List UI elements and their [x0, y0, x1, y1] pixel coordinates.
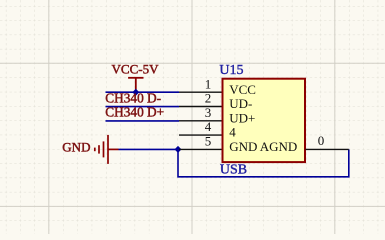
svg-text:U15: U15 — [219, 63, 243, 78]
power port VCC-5V bar symbol — [128, 78, 143, 92]
wire net GND to pin 5 — [119, 148, 180, 150]
svg-text:GND: GND — [62, 140, 90, 155]
svg-text:CH340 D-: CH340 D- — [105, 90, 161, 105]
wire USB loop from GND junction to pin 0 — [178, 149, 349, 176]
svg-text:VCC-5V: VCC-5V — [112, 61, 160, 76]
pin 0 line — [306, 148, 349, 150]
svg-text:UD-: UD- — [229, 96, 252, 111]
svg-text:GND: GND — [229, 139, 257, 154]
pin 4 line — [179, 134, 222, 136]
junction on GND net — [175, 146, 182, 153]
wire net CH340 D- to pin 2 — [106, 106, 180, 108]
power port GND earth symbol — [95, 135, 119, 164]
svg-text:5: 5 — [205, 134, 212, 149]
svg-text:4: 4 — [205, 119, 212, 134]
svg-text:UD+: UD+ — [229, 110, 255, 125]
pin 2 line — [179, 106, 222, 108]
svg-text:USB: USB — [220, 163, 247, 178]
component U15 body — [223, 79, 306, 162]
pin 1 line — [179, 91, 222, 93]
svg-text:4: 4 — [229, 125, 236, 140]
wire net CH340 D+ to pin 3 — [106, 120, 180, 122]
svg-text:AGND: AGND — [260, 139, 298, 154]
svg-text:0: 0 — [318, 133, 325, 148]
junction on VCC-5V net — [132, 89, 139, 96]
svg-text:VCC: VCC — [229, 82, 256, 97]
svg-text:CH340 D+: CH340 D+ — [105, 105, 164, 120]
svg-text:3: 3 — [205, 105, 212, 120]
pin 3 line — [179, 120, 222, 122]
svg-text:1: 1 — [205, 76, 212, 91]
wire net VCC-5V to pin 1 — [106, 91, 180, 93]
pin 5 line — [179, 148, 222, 150]
svg-text:2: 2 — [205, 91, 212, 106]
